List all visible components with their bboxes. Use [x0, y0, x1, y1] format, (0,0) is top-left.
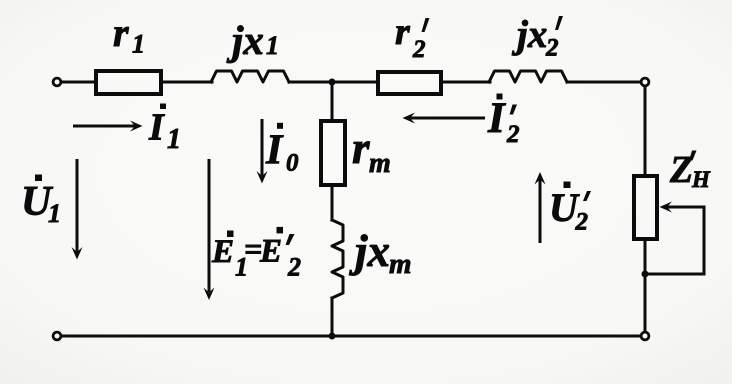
svg-text:1: 1 [167, 124, 181, 155]
svg-text:jx: jx [511, 13, 547, 56]
wire terminal a down to Zh [644, 87, 647, 176]
label I2' (current) [497, 94, 503, 100]
svg-text:1: 1 [48, 199, 61, 228]
svg-text:m: m [369, 148, 391, 179]
emf arrow E1=E2' line [208, 159, 211, 292]
wire jx2' to terminal a (top-right) [567, 81, 640, 84]
svg-text:2: 2 [287, 253, 301, 282]
junction node M (top middle) [329, 79, 336, 86]
arrowhead E1=E2' [204, 288, 215, 301]
svg-text:r: r [352, 123, 370, 173]
svg-text:jx: jx [226, 17, 264, 63]
label I1 (current) [160, 104, 166, 110]
wire node M down to rm [331, 82, 334, 121]
label E1=E2' (emf) [227, 231, 234, 238]
arrowhead I1 [130, 121, 143, 132]
label U1 (voltage) [35, 175, 42, 182]
wire Zh to node P [644, 239, 647, 332]
junction node N (bottom middle) [329, 333, 336, 340]
arrowhead U1 [72, 247, 83, 260]
current arrow I1 line [73, 125, 135, 128]
inductor jxm [332, 220, 343, 298]
svg-text:m: m [389, 248, 412, 280]
svg-text:1: 1 [132, 30, 145, 59]
svg-text:jx: jx [349, 226, 390, 276]
label I0 (current) [277, 123, 283, 129]
terminal A (top-left) [53, 78, 61, 86]
resistor r2' [378, 72, 441, 94]
voltage arrow U2' line [539, 179, 542, 243]
wire rm to jxm [331, 187, 334, 220]
svg-text:r: r [395, 11, 411, 53]
arrowhead I2' [403, 113, 416, 124]
svg-text:I: I [487, 95, 506, 142]
svg-text:2: 2 [575, 209, 589, 236]
svg-text:r: r [113, 10, 129, 55]
wire terminal A to r1 [62, 81, 96, 84]
wire jx1 to node M [289, 81, 332, 84]
arrowhead I0 [257, 171, 268, 184]
bottom wire X to x [62, 335, 640, 338]
current arrow I0 line [261, 119, 264, 176]
wire jxm to node N (bottom) [331, 298, 334, 336]
resistor rm [321, 121, 345, 185]
terminal a (top-right) [641, 78, 649, 86]
terminal x (bottom-right) [641, 332, 649, 340]
arrowhead U2' [535, 172, 546, 185]
svg-text:2: 2 [545, 35, 559, 62]
svg-text:E: E [259, 234, 282, 270]
svg-text:H: H [691, 167, 711, 192]
voltage arrow U1 line [76, 159, 79, 252]
wire node M to r2' [332, 81, 378, 84]
current arrow I2' line [410, 117, 485, 120]
svg-text:2: 2 [506, 121, 520, 148]
wire r1 to jx1 [163, 81, 212, 84]
svg-text:I: I [148, 107, 165, 149]
resistor r1 [96, 71, 161, 94]
wire r2' to jx2' [441, 81, 490, 84]
inductor jx2' [489, 71, 567, 82]
svg-text:E: E [211, 234, 234, 270]
wiper wire of Zh (adjustable tap) [645, 207, 704, 274]
svg-text:I: I [265, 128, 284, 174]
svg-text:2: 2 [412, 36, 426, 63]
label U2' (voltage) [564, 182, 571, 189]
svg-text:1: 1 [266, 31, 279, 60]
junction node P (Zh tap) [642, 271, 649, 278]
svg-text:Z: Z [669, 149, 693, 191]
terminal X (bottom-left) [53, 332, 61, 340]
inductor jx1 [211, 71, 289, 82]
arrowhead of Zh wiper [660, 202, 673, 213]
svg-text:0: 0 [286, 150, 299, 177]
load impedance Zh [634, 176, 657, 239]
